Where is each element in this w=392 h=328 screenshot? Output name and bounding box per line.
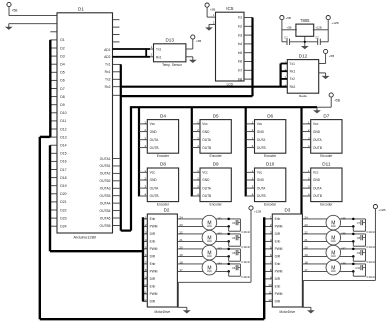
svg-text:D13: D13 [165,38,174,43]
svg-text:GND: GND [257,178,265,182]
motor M7 [326,245,346,260]
wire bus D3 left pins [263,217,265,319]
svg-text:D12: D12 [299,53,308,58]
svg-text:D3: D3 [60,54,65,58]
svg-text:M5: M5 [342,217,346,221]
svg-text:Encoder: Encoder [264,203,277,207]
wire +5B left rail [281,20,283,42]
svg-text:DIR: DIR [150,232,156,236]
wire 7805 ground stem [304,36,306,43]
svg-text:OUTA4: OUTA4 [100,201,111,205]
encoder D10 [246,162,286,207]
wire +5B to D1 pin1 [9,7,57,16]
encoder D8 [139,162,179,207]
power +5B pin at D13 [191,35,202,43]
wire bus bottom to MotorDrive D3 [40,318,264,320]
svg-text:D13: D13 [60,135,66,139]
power +12B pin at D3 [373,205,385,213]
svg-text:PWM: PWM [150,270,158,274]
svg-text:In6: In6 [238,60,243,64]
svg-text:Encoder: Encoder [210,203,223,207]
svg-text:GND: GND [202,130,210,134]
svg-text:M: M [331,250,335,256]
svg-text:D22: D22 [60,208,66,212]
svg-text:M: M [331,265,335,271]
power +5B pin at encoder bus [329,93,340,103]
svg-text:LCD: LCD [227,82,234,86]
wire motor M2 pair with junctions [177,233,240,247]
svg-text:OUTA: OUTA [202,138,211,142]
power +5B pin at D12 [324,49,335,57]
svg-text:OUTB: OUTB [257,194,266,198]
wire +5B to D12 [319,54,326,64]
svg-text:+5B: +5B [12,8,18,12]
D1 right NC stubs [113,20,120,42]
svg-text:C1: C1 [284,36,288,40]
svg-text:Encoder: Encoder [264,154,277,158]
svg-text:+5B: +5B [287,26,292,30]
svg-text:C7: C7 [357,221,361,225]
ground at IC5 [205,24,213,30]
svg-text:C4: C4 [232,236,236,240]
svg-text:PWM: PWM [275,247,283,251]
encoder D6 [246,113,286,158]
svg-text:D7: D7 [60,87,65,91]
op-amp U1 -- main MCU D1 Arduino1280 body [57,7,113,240]
wire bundle H to D12 radio [121,86,287,88]
svg-text:M: M [207,250,211,256]
wire bus D2 left pins [142,217,144,301]
svg-text:OUTA: OUTA [257,186,266,190]
svg-text:Rx2: Rx2 [290,85,296,89]
svg-text:GND: GND [150,130,158,134]
svg-text:11: 11 [268,291,271,295]
svg-text:In4: In4 [238,42,243,46]
svg-text:D11: D11 [322,162,331,167]
svg-text:0.33mF: 0.33mF [241,230,250,234]
ground at D13 [189,57,197,63]
svg-text:M: M [207,265,211,271]
svg-text:OUTB2: OUTB2 [100,179,111,183]
svg-text:+5B: +5B [329,54,334,58]
svg-text:Encoder: Encoder [320,154,333,158]
wire D2 ground [177,306,186,308]
svg-text:M6: M6 [342,232,346,236]
svg-text:+5B: +5B [210,7,215,11]
svg-text:Vcc: Vcc [150,122,156,126]
svg-text:Tx1: Tx1 [105,63,111,67]
svg-text:OUTA: OUTA [202,186,211,190]
svg-text:PWM: PWM [150,225,158,229]
svg-text:D24: D24 [60,225,66,229]
wire 7805 output +12B [313,26,328,30]
capacitor C5 0.33mF [232,250,250,264]
wire encoder top bus L2 [130,106,317,108]
svg-text:PWM: PWM [275,225,283,229]
svg-text:Encoder: Encoder [210,154,223,158]
svg-text:D6: D6 [267,113,273,118]
svg-text:D17: D17 [60,168,66,172]
svg-text:Enb: Enb [275,240,281,244]
svg-text:M: M [207,220,211,226]
svg-text:In2: In2 [238,25,243,29]
encoder D7 [302,113,343,158]
wire D12 left bus [281,64,288,87]
wire motor M7 pair with junctions [302,248,365,262]
svg-text:C9: C9 [357,251,361,255]
svg-text:C10: C10 [355,266,360,270]
svg-text:0.33mF: 0.33mF [241,260,250,264]
svg-text:OUTB: OUTB [257,146,266,150]
wire motor M8 pair with junctions [302,263,365,277]
svg-text:In5: In5 [238,51,243,55]
svg-text:M: M [331,220,335,226]
svg-text:OUTA3: OUTA3 [100,187,111,191]
wire motor M6 pair with junctions [302,233,365,247]
wire ground to D1 pin2 [9,23,57,25]
svg-text:+12B: +12B [315,26,322,30]
motor driver D2 MotorDrive body [143,208,183,315]
svg-text:C3: C3 [232,221,236,225]
svg-text:+5B: +5B [286,16,291,20]
svg-text:C8: C8 [357,236,361,240]
svg-text:Tx2: Tx2 [105,78,111,82]
svg-text:Vcc: Vcc [202,122,208,126]
svg-text:OUTB: OUTB [202,146,211,150]
svg-text:Tx2: Tx2 [290,77,296,81]
svg-text:Encoder: Encoder [157,203,170,207]
svg-text:M: M [331,235,335,241]
svg-text:GND: GND [150,178,158,182]
svg-text:D9: D9 [213,162,219,167]
svg-text:D1: D1 [60,38,65,42]
svg-text:Vcc: Vcc [313,122,319,126]
svg-text:D14: D14 [60,144,66,148]
wire encoder column bus 2 [191,107,193,196]
motor M4 [202,260,222,275]
svg-text:M1: M1 [218,217,222,221]
svg-text:+12B: +12B [254,210,261,214]
wire bus D1-left upper bar [49,40,51,137]
capacitor C8 0.33mF [357,235,376,249]
svg-text:D4: D4 [60,63,65,67]
D1 left pins D1-D24 with stubs [50,38,66,228]
svg-text:Temp. Sensor: Temp. Sensor [162,63,183,67]
encoder D4 [139,113,179,158]
svg-text:Enb: Enb [150,262,156,266]
svg-text:D12: D12 [60,127,66,131]
svg-text:Vcc: Vcc [202,171,208,175]
svg-text:D18: D18 [60,176,66,180]
ground at D2 [183,307,191,313]
svg-text:0.33mF: 0.33mF [366,260,375,264]
motor M2 [202,230,222,245]
svg-text:D1: D1 [78,7,84,12]
svg-text:OUTA: OUTA [150,186,159,190]
svg-text:0.33mF: 0.33mF [366,245,375,249]
svg-text:M: M [207,235,211,241]
svg-text:DIR: DIR [275,277,281,281]
wire bus jog at D13 row [40,136,51,138]
svg-text:Radio: Radio [299,94,307,98]
wire +5B to IC5 [207,7,215,17]
svg-text:OUTB3: OUTB3 [100,194,111,198]
svg-text:0.33mF: 0.33mF [366,275,375,279]
capacitor C6 0.33mF [232,265,250,279]
svg-text:PWM: PWM [150,292,158,296]
svg-text:PWM: PWM [275,270,283,274]
wire bus feed to MotorDrive D2 [50,250,143,252]
svg-text:OUTB1: OUTB1 [100,164,111,168]
capacitor C1 [284,36,289,45]
svg-text:OUTA: OUTA [150,138,159,142]
wire motor M4 pair with junctions [177,263,240,277]
motor M6 [326,230,346,245]
wire bus D1-left lower bar [49,145,51,251]
svg-text:Encoder: Encoder [157,154,170,158]
svg-text:Enb: Enb [275,262,281,266]
svg-text:D9: D9 [60,103,65,107]
ground top-left [5,24,13,30]
motor driver D3 MotorDrive body [264,208,308,315]
svg-text:Tx1: Tx1 [156,47,162,51]
svg-text:M4: M4 [218,262,222,266]
wire ground rail under 7805 [282,41,328,43]
svg-text:Enb: Enb [150,285,156,289]
svg-text:In1: In1 [238,16,243,20]
svg-text:D11: D11 [60,119,66,123]
svg-text:In7: In7 [238,69,243,73]
svg-text:In3: In3 [238,33,243,37]
wire D12 to ground [319,72,326,74]
svg-text:D21: D21 [60,200,66,204]
svg-text:C2: C2 [315,36,319,40]
svg-text:PWM: PWM [150,247,158,251]
svg-text:GND: GND [257,130,265,134]
svg-text:D4: D4 [160,113,166,118]
wire D13 to ground [186,56,193,58]
svg-text:D10: D10 [60,111,66,115]
svg-text:Encoder: Encoder [320,203,333,207]
wire +12B right rail [327,20,329,42]
D1 pins Tx1 Rx1 Tx2 Rx2 with wires [105,63,121,96]
svg-text:+5B: +5B [334,99,340,103]
svg-text:D16: D16 [60,160,66,164]
svg-text:Rx1: Rx1 [156,55,162,59]
svg-text:12: 12 [268,298,272,302]
svg-text:GND: GND [313,178,321,182]
svg-text:DIR: DIR [275,300,281,304]
svg-text:OUTB: OUTB [150,146,159,150]
svg-text:D19: D19 [60,184,66,188]
wire +5B to 7805 input [282,26,297,30]
svg-text:IC5: IC5 [226,6,234,11]
svg-text:OUTB5: OUTB5 [100,224,111,228]
wire encoder column bus 3 [245,107,247,196]
svg-text:OUTB4: OUTB4 [100,209,111,213]
svg-text:D15: D15 [60,152,66,156]
sensor D13 Temp. Sensor [151,38,186,68]
svg-text:Arduino1280: Arduino1280 [73,235,96,240]
D1 pins AD1 AD2 labels [104,48,111,59]
motor M5 [326,215,346,230]
svg-text:OUTB: OUTB [313,146,322,150]
power +5B pin at IC5 [205,3,215,11]
svg-text:D5: D5 [60,71,65,75]
svg-text:OUTA1: OUTA1 [100,157,111,161]
wire +12B rail at D2 [178,210,251,307]
power +5B pin at 7805 [280,16,291,21]
wire D3 ground [302,306,311,308]
IC U5 -- IC5 LCD [213,6,253,86]
svg-text:C6: C6 [232,266,236,270]
svg-text:D10: D10 [266,162,275,167]
motor M8 [326,260,346,275]
wire encoder column bus 1 [138,107,140,196]
svg-text:Vcc: Vcc [313,171,319,175]
regulator 7805 body [296,18,314,37]
svg-text:MotorDrive: MotorDrive [155,310,171,314]
wire AD1 to D13 [113,49,154,57]
svg-text:D6: D6 [60,79,65,83]
svg-text:OUTA: OUTA [313,138,322,142]
svg-text:OUTA: OUTA [257,138,266,142]
ground arrow at encoder bus end [313,107,321,113]
capacitor C9 0.33mF [357,250,376,264]
svg-text:Rx1: Rx1 [105,70,111,74]
svg-text:C5: C5 [232,251,236,255]
svg-text:D8: D8 [60,95,65,99]
svg-text:Vcc: Vcc [150,171,156,175]
svg-text:+5B: +5B [196,39,201,43]
wire D1 pin3 stub [50,31,57,33]
wire bus left outer vertical [39,137,41,319]
svg-text:In8: In8 [238,77,243,81]
svg-text:GND: GND [313,130,321,134]
capacitor C7 0.33mF [357,220,376,234]
svg-text:Tx1: Tx1 [290,62,296,66]
encoder D11 [302,162,343,207]
svg-text:D3: D3 [284,208,290,213]
svg-text:OUTA5: OUTA5 [100,216,111,220]
svg-text:GND: GND [202,178,210,182]
svg-text:OUTB: OUTB [313,194,322,198]
wire bus IC5 inputs vertical [251,18,253,97]
svg-text:Rx1: Rx1 [290,70,296,74]
encoder D9 [192,162,232,207]
ground at D12 [322,73,330,79]
svg-text:MotorDrive: MotorDrive [280,310,296,314]
svg-text:M2: M2 [218,232,222,236]
wire motor M5 pair with junctions [302,218,365,232]
capacitor C10 0.33mF [355,265,375,279]
wire serial bundle vertical at D1 right [120,64,122,230]
svg-text:D8: D8 [160,162,166,167]
svg-text:DIR: DIR [150,277,156,281]
svg-text:0.33mF: 0.33mF [366,230,375,234]
svg-text:M8: M8 [342,262,346,266]
power +5B supply pin top-left [7,2,17,12]
wire bundle H to IC5 LCD [121,95,253,97]
svg-text:D2: D2 [164,208,170,213]
svg-text:Enb: Enb [275,285,281,289]
wire +5B to D13 [186,39,193,49]
wire motor M3 pair with junctions [177,248,240,262]
motor M3 [202,245,222,260]
ground at D3 [307,307,315,313]
svg-text:7805: 7805 [300,18,310,23]
wire hairpin U-bottom [121,230,131,232]
wire encoder column bus 4 [300,107,302,214]
svg-text:Enb: Enb [150,217,156,221]
svg-text:10: 10 [268,283,272,287]
wire AD2 to D13 [113,56,154,58]
svg-text:0.33mF: 0.33mF [241,275,250,279]
svg-text:Vcc: Vcc [257,122,263,126]
svg-text:DIR: DIR [275,232,281,236]
power +12B pin at 7805 [326,16,338,26]
svg-text:0.33mF: 0.33mF [241,245,250,249]
svg-text:DIR: DIR [150,255,156,259]
wire hairpin right leg up [130,107,132,230]
svg-text:AD2: AD2 [104,55,111,59]
svg-text:OUTB: OUTB [150,194,159,198]
svg-text:D2: D2 [60,46,65,50]
svg-text:+12B: +12B [332,21,339,25]
svg-text:Rx2: Rx2 [105,85,111,89]
svg-text:D20: D20 [60,192,66,196]
D1 pins OUTA1-OUTB5 with stubs [100,157,120,228]
svg-text:DIR: DIR [150,300,156,304]
svg-text:OUTB: OUTB [202,194,211,198]
svg-text:M3: M3 [218,247,222,251]
wire +5B down to bus [317,97,331,107]
svg-text:DIR: DIR [275,255,281,259]
svg-text:OUTA2: OUTA2 [100,172,111,176]
svg-text:+12B: +12B [378,208,385,212]
svg-text:Enb: Enb [150,240,156,244]
svg-text:D23: D23 [60,216,66,220]
wire +12B rail at D3 [303,209,375,308]
wire motor M1 pair with junctions [177,218,240,232]
svg-text:D5: D5 [213,113,219,118]
wire IC5 to ground [209,23,216,25]
capacitor C3 0.33mF [232,220,250,234]
capacitor C4 0.33mF [232,235,250,249]
svg-text:Enb: Enb [275,217,281,221]
svg-text:AD1: AD1 [104,48,111,52]
svg-text:D7: D7 [323,113,329,118]
svg-text:OUTA: OUTA [313,186,322,190]
svg-text:Vcc: Vcc [257,171,263,175]
ground at 7805 [301,43,309,49]
svg-text:PWM: PWM [275,292,283,296]
power +12B pin at D2 [249,206,261,214]
capacitor C2 [315,36,320,45]
encoder D5 [192,113,232,158]
svg-text:M7: M7 [342,247,346,251]
radio module D12 [285,53,319,98]
motor M1 [202,215,222,230]
